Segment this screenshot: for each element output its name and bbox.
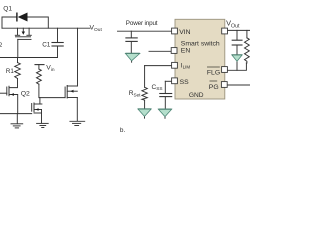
svg-text:SS: SS [180,79,190,86]
svg-text:VIN: VIN [179,29,190,36]
svg-text:R1: R1 [6,68,14,75]
svg-text:PG: PG [209,84,219,91]
svg-text:Q1: Q1 [3,5,12,12]
svg-text:C1: C1 [42,42,51,49]
svg-text:Q2: Q2 [21,91,30,98]
svg-text:EN: EN [181,48,191,55]
svg-text:FLG: FLG [207,69,220,76]
svg-text:b.: b. [120,127,126,134]
svg-text:Power input: Power input [126,20,158,27]
svg-text:Smart switch: Smart switch [181,41,220,48]
svg-text:GND: GND [189,92,204,99]
